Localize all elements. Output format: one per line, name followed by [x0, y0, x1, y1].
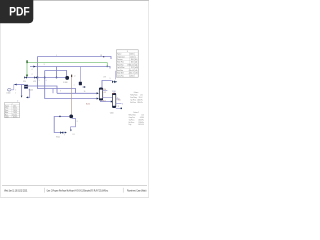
- svg-text:kg/h: kg/h: [135, 64, 138, 66]
- svg-text:C: C: [16, 108, 17, 110]
- svg-text:Comp Frac: Comp Frac: [129, 117, 136, 119]
- svg-text:VLV: VLV: [23, 81, 26, 83]
- svg-text:96.4 C: 96.4 C: [86, 103, 90, 105]
- pump P-100: [65, 76, 69, 80]
- PDF badge: [0, 0, 33, 23]
- wire: green stream horizontal: [27, 62, 107, 64]
- svg-text:Mass: Mass: [5, 114, 8, 116]
- wire: top stream line 8: [38, 57, 112, 60]
- svg-text:-1.2: -1.2: [103, 92, 106, 94]
- svg-text:1400 kPa: 1400 kPa: [137, 99, 143, 101]
- wire: stepped feed upper: [28, 86, 57, 93]
- svg-text:VLV: VLV: [33, 81, 36, 83]
- svg-text:Vapour: Vapour: [5, 106, 10, 108]
- svg-text:m3/h: m3/h: [135, 67, 138, 69]
- node tick on top line: [103, 56, 104, 57]
- svg-text:Liq Vol Flow: Liq Vol Flow: [117, 67, 124, 69]
- wire: recycle loop: [54, 117, 69, 133]
- node arrowhead feed lower: [97, 98, 99, 100]
- wire: feed branch small step: [52, 89, 54, 94]
- wire: branch vertical x56: [56, 67, 58, 78]
- svg-text:2.964e+04: 2.964e+04: [127, 64, 134, 66]
- node junction dot B: [56, 77, 58, 79]
- svg-text:VLV: VLV: [103, 76, 106, 78]
- svg-text:Top Press: Top Press: [130, 99, 136, 101]
- svg-text:25.0: 25.0: [103, 89, 106, 91]
- wire: T-101 side stub 2: [116, 103, 122, 105]
- wire: to letdown valve: [102, 81, 112, 89]
- svg-text:PDF: PDF: [9, 5, 30, 19]
- svg-text:58.3: 58.3: [131, 67, 134, 69]
- svg-text:T-101: T-101: [112, 91, 116, 93]
- svg-text:kJ/h: kJ/h: [135, 70, 138, 72]
- svg-text:1300 kPa: 1300 kPa: [138, 119, 144, 121]
- wire: exchanger inlet: [14, 84, 24, 86]
- svg-text:11: 11: [118, 106, 120, 108]
- wire: under-table drop: [114, 71, 116, 80]
- svg-text:1450 kPa: 1450 kPa: [137, 102, 143, 104]
- wire: green drop to blue line: [106, 63, 108, 67]
- table stream left: [4, 103, 19, 119]
- wire: energy to exchanger: [27, 89, 30, 98]
- heat exchanger E-100: [24, 85, 28, 89]
- svg-text:Wed Jan 11 10:51:52 2021: Wed Jan 11 10:51:52 2021: [4, 191, 28, 193]
- valve VLV-100: [24, 76, 27, 79]
- node junction dot A: [44, 77, 46, 79]
- svg-text:25.00: 25.00: [130, 56, 134, 58]
- wire: feed lower horizontal: [57, 92, 98, 94]
- wire: step right of pump: [71, 119, 76, 130]
- footer rule: [2, 185, 147, 187]
- svg-text:1.50: 1.50: [140, 95, 143, 97]
- node energy tick top: [71, 75, 72, 78]
- svg-text:1.00: 1.00: [141, 115, 144, 117]
- svg-text:Molar: Molar: [5, 112, 9, 114]
- node arrow tick inlet: [15, 84, 17, 86]
- valve VLV-101: [34, 76, 37, 79]
- svg-text:0.0000: 0.0000: [130, 54, 134, 56]
- table workbook top right: [116, 50, 138, 78]
- svg-text:P-100: P-100: [63, 82, 67, 84]
- svg-text:1330 kPa: 1330 kPa: [138, 122, 144, 124]
- svg-text:Press: Press: [5, 110, 9, 112]
- svg-text:V-100: V-100: [6, 93, 10, 95]
- wire: column interconnect upper: [103, 97, 113, 99]
- node arrow down right leg: [70, 130, 72, 132]
- node arrow energy: [26, 96, 28, 98]
- table text block right lower: [129, 112, 144, 126]
- svg-text:0.0100: 0.0100: [140, 117, 144, 119]
- wire: stepped feed middle: [38, 78, 76, 94]
- svg-text:kg/h: kg/h: [135, 62, 138, 64]
- tank TK-100: [7, 85, 13, 92]
- node arrowhead into column T-101: [111, 101, 113, 103]
- svg-text:1.2e7 kJ/h: 1.2e7 kJ/h: [138, 124, 144, 126]
- footer separator 1: [44, 188, 46, 193]
- svg-text:Mass Flow: Mass Flow: [117, 64, 123, 66]
- node arrowhead feed upper: [97, 92, 99, 94]
- svg-text:18: 18: [100, 55, 102, 57]
- wire: column interconnect lower: [100, 100, 111, 102]
- column T-101: [112, 93, 115, 108]
- wire: valve header line: [24, 77, 66, 79]
- node green-blue junction: [107, 66, 108, 67]
- wire: T-101 bottoms: [116, 107, 121, 109]
- node tick on loop top: [59, 116, 60, 117]
- svg-text:10: 10: [84, 91, 86, 93]
- node green source arrow: [26, 60, 27, 63]
- svg-text:m: m: [16, 116, 17, 118]
- svg-text:P-1: P-1: [73, 134, 75, 136]
- svg-text:Flowsheet: Case (Main): Flowsheet: Case (Main): [127, 189, 147, 192]
- page border: [0, 0, 149, 2]
- svg-text:0.00: 0.00: [13, 106, 16, 108]
- svg-text:Top Press: Top Press: [129, 119, 135, 121]
- wire: long feed drop line: [45, 71, 98, 99]
- table text block right middle: [130, 92, 142, 104]
- svg-text:-1.5e+08: -1.5e+08: [128, 70, 134, 72]
- valve VLV-103: [60, 131, 63, 134]
- svg-text:1440: 1440: [131, 62, 134, 64]
- svg-text:7: 7: [64, 134, 65, 136]
- svg-text:1500: 1500: [131, 59, 134, 61]
- svg-text:VLV-1: VLV-1: [56, 136, 60, 138]
- valve VLV-102: [112, 80, 115, 83]
- svg-text:2: 2: [32, 74, 33, 76]
- node arrowhead stream 2: [21, 96, 23, 98]
- wire: energy stream vertical: [71, 78, 73, 116]
- node tick bottoms: [121, 108, 122, 110]
- wire: column T-100 overhead: [103, 90, 108, 92]
- wire: blue stream line 4: [30, 67, 110, 69]
- pump P-101 bottom: [69, 115, 73, 119]
- node arrow on line 4: [33, 66, 35, 68]
- node arrow after valve: [115, 81, 117, 83]
- svg-text:Feed Temp: Feed Temp: [130, 97, 137, 99]
- svg-text:T-100: T-100: [110, 112, 114, 114]
- wire: left box vertical: [37, 57, 39, 78]
- svg-text:0.2500: 0.2500: [130, 75, 134, 77]
- wire: stream to pump (corner): [45, 71, 67, 76]
- svg-text:Column: Column: [134, 92, 139, 94]
- svg-text:-1.05e+5: -1.05e+5: [128, 73, 134, 75]
- wire: green stream vertical: [26, 63, 28, 77]
- footer separator 2: [122, 188, 124, 193]
- svg-text:Case: C:\Program Files\AspenTe: Case: C:\Program Files\AspenTech\Aspen H…: [47, 189, 109, 192]
- svg-text:25.0: 25.0: [118, 100, 121, 102]
- svg-text:95.0 C: 95.0 C: [139, 97, 143, 99]
- svg-text:Temp: Temp: [5, 108, 8, 110]
- node green arrowhead into valve line: [26, 75, 28, 78]
- svg-text:C: C: [135, 56, 136, 58]
- svg-text:Column 2: Column 2: [133, 112, 139, 114]
- svg-text:2.9e4: 2.9e4: [12, 114, 16, 116]
- page background: [0, 0, 149, 198]
- node junction blob C: [37, 77, 39, 79]
- svg-text:kPa: kPa: [135, 59, 138, 61]
- column T-100: [99, 88, 102, 100]
- recycle op RCY: [79, 66, 86, 88]
- wire: stream 2 drop: [21, 85, 23, 96]
- wire: T-101 side stub 1: [116, 98, 120, 100]
- svg-text:3: 3: [44, 64, 45, 66]
- node arrow end loop: [65, 132, 67, 134]
